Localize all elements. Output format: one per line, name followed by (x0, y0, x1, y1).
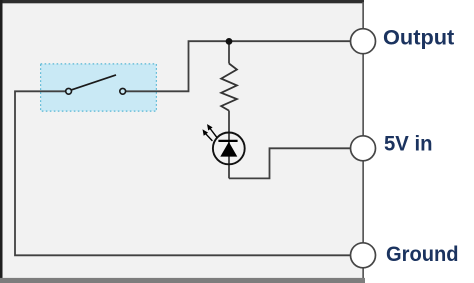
enclosure left border (0, 0, 3, 280)
switch S1 (66, 75, 126, 94)
wire LED to 5V in (229, 148, 351, 178)
terminal Output (351, 29, 376, 54)
highlight box (switch) (41, 64, 157, 111)
terminal Ground (351, 243, 376, 268)
enclosure box fill (0, 0, 364, 283)
enclosure right border (362, 2, 364, 280)
LED D1 (213, 133, 245, 165)
svg-text:Output: Output (383, 27, 454, 50)
wire switch to Output (126, 41, 351, 91)
wire left+bottom: switch to Ground (15, 91, 351, 255)
terminal 5V in (351, 136, 376, 161)
resistor R1 (221, 64, 237, 111)
wire resistor-LED vertical (228, 41, 230, 63)
svg-text:5V in: 5V in (384, 132, 433, 155)
node junction dot (226, 38, 233, 45)
svg-text:Ground: Ground (386, 243, 459, 266)
enclosure top border (0, 0, 364, 3)
enclosure bottom border (0, 278, 365, 283)
LED emission arrows (203, 125, 217, 141)
